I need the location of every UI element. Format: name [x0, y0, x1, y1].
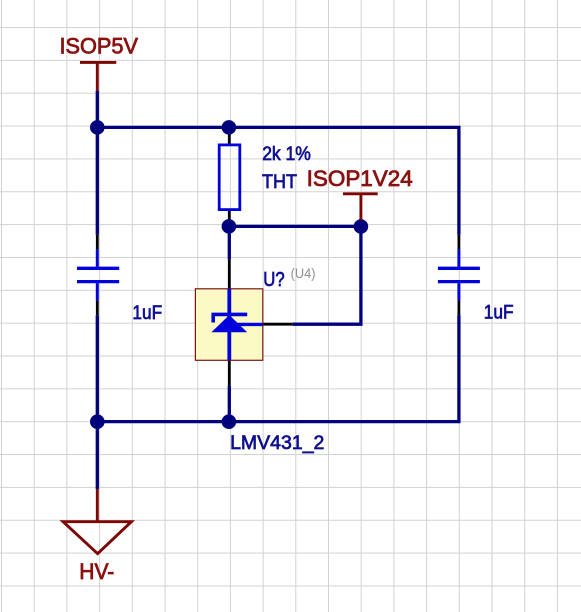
svg-text:LMV431_2: LMV431_2	[230, 433, 324, 454]
svg-text:HV-: HV-	[79, 559, 114, 584]
svg-text:2k 1%: 2k 1%	[262, 144, 311, 165]
svg-text:THT: THT	[262, 172, 297, 193]
svg-text:1uF: 1uF	[484, 303, 514, 324]
svg-text:(U4): (U4)	[291, 266, 316, 281]
svg-text:ISOP1V24: ISOP1V24	[307, 166, 413, 191]
svg-text:1uF: 1uF	[132, 303, 162, 324]
svg-text:ISOP5V: ISOP5V	[60, 34, 139, 59]
svg-text:U?: U?	[263, 269, 284, 291]
